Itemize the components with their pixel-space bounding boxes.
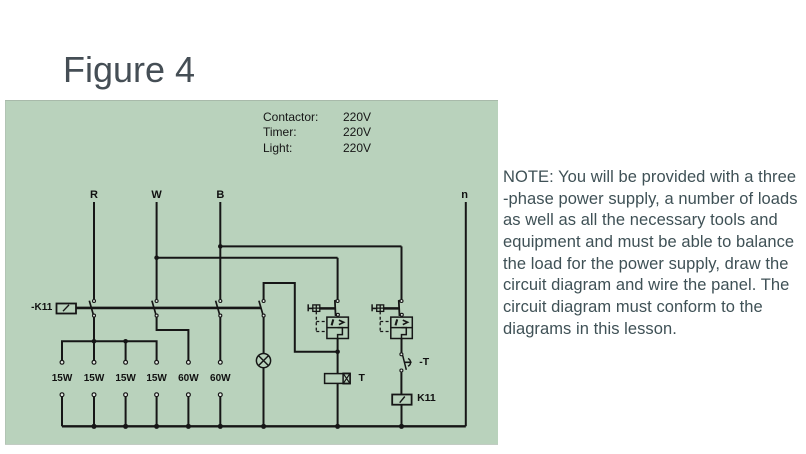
wire lamp3 to bus (125, 397, 127, 427)
contact K11 pole 2 (W) (152, 300, 158, 318)
lamp value label 15W #4 (146, 374, 167, 384)
wire lamp5 to bus (187, 397, 189, 427)
terminal lamp6 bottom (218, 393, 222, 397)
timed contact -T (400, 353, 412, 372)
contact K11 pole 1 (R) (89, 300, 95, 318)
wire phase B vertical (219, 202, 221, 299)
wire lamp to bus (263, 368, 265, 427)
neutral bus (62, 425, 466, 427)
breaker Q1 trip unit box (327, 317, 349, 338)
contact K11 pole 4 (lamp) (259, 300, 265, 318)
wire B feed to breaker Q2 (220, 246, 401, 299)
junction dot feeder lamp2 (92, 339, 97, 344)
terminal lamp4 top (155, 360, 159, 364)
lamp value label 60W #6 (210, 374, 231, 384)
lamp value label 15W #2 (84, 374, 105, 384)
terminal lamp1 bottom (60, 393, 64, 397)
wire -T to coil K11 (400, 372, 402, 394)
wire 15W lamp feeder (62, 341, 157, 360)
label -K11 (31, 303, 52, 313)
terminal lamp3 bottom (124, 393, 128, 397)
node R label (90, 190, 98, 201)
wire lamp4 to bus (156, 397, 158, 427)
terminal lamp6 top (218, 360, 222, 364)
junction dot bus lamp5 (186, 424, 191, 429)
lamp value label 15W #1 (52, 374, 73, 384)
contactor coil K11 (392, 395, 411, 405)
contact K11 pole 3 (B) (216, 300, 222, 318)
terminal lamp2 bottom (92, 393, 96, 397)
terminal lamp3 top (124, 360, 128, 364)
junction dot bus lamp4 (154, 424, 159, 429)
wire lamp branch hook (264, 283, 338, 352)
junction dot bus indicator lamp (261, 424, 266, 429)
terminal lamp5 bottom (187, 393, 191, 397)
wire timer to bus (337, 383, 339, 426)
wire lamp2 to bus (93, 397, 95, 427)
lamp value label 15W #3 (115, 374, 136, 384)
wire Q1 to junction and timer (337, 339, 339, 374)
wire Q2 to timed contact (401, 339, 403, 353)
junction dot B feed (218, 244, 223, 249)
junction dot bus lamp6 (218, 424, 223, 429)
wire coil K11 to bus (401, 405, 403, 427)
contactor linkage bar (76, 307, 261, 310)
node n label (461, 190, 468, 201)
wire phase W vertical (156, 202, 158, 299)
wire W jog to lamp5 (157, 318, 189, 361)
junction dot bus coil branch (399, 424, 404, 429)
timer coil T (325, 373, 351, 383)
junction dot bus lamp2 (91, 424, 96, 429)
breaker Q2 linkage dashed (380, 311, 390, 332)
indicator lamp (256, 354, 270, 368)
wire W feed to breaker Q1 (157, 258, 338, 299)
junction dot bus timer branch (335, 424, 340, 429)
node W label (151, 190, 161, 201)
wire phase R vertical (93, 202, 95, 299)
terminal lamp5 top (187, 360, 191, 364)
breaker Q1 switch contact (335, 300, 340, 317)
label T (359, 373, 365, 384)
breaker Q2 I> label (396, 319, 408, 325)
junction dot W feed (154, 255, 159, 260)
wire neutral n vertical (465, 202, 467, 426)
breaker Q1 manual actuator (308, 304, 334, 311)
breaker Q2 manual actuator (372, 304, 398, 311)
wire B to lamp6 (219, 318, 221, 361)
breaker Q1 linkage dashed (316, 311, 326, 332)
label K11 (417, 393, 436, 404)
terminal lamp4 bottom (155, 393, 159, 397)
breaker Q2 trip unit box (391, 317, 413, 338)
wire contact4 to lamp (263, 318, 265, 354)
wire lamp1 to bus (61, 397, 63, 427)
junction dot lamp branch (335, 349, 340, 354)
label -T (419, 357, 429, 368)
wire R to lamp feeder (93, 318, 95, 342)
wire lamp6 to bus (219, 397, 221, 427)
terminal lamp2 top (92, 360, 96, 364)
contactor actuator box -K11 (57, 304, 77, 314)
node B label (216, 190, 224, 201)
breaker Q1 I> label (332, 319, 344, 325)
junction dot bus lamp3 (123, 424, 128, 429)
terminal lamp1 top (60, 360, 64, 364)
breaker Q2 switch contact (399, 300, 404, 317)
voltage key text (263, 111, 318, 123)
junction dot feeder lamp3 (123, 339, 128, 344)
lamp value label 60W #5 (178, 374, 199, 384)
